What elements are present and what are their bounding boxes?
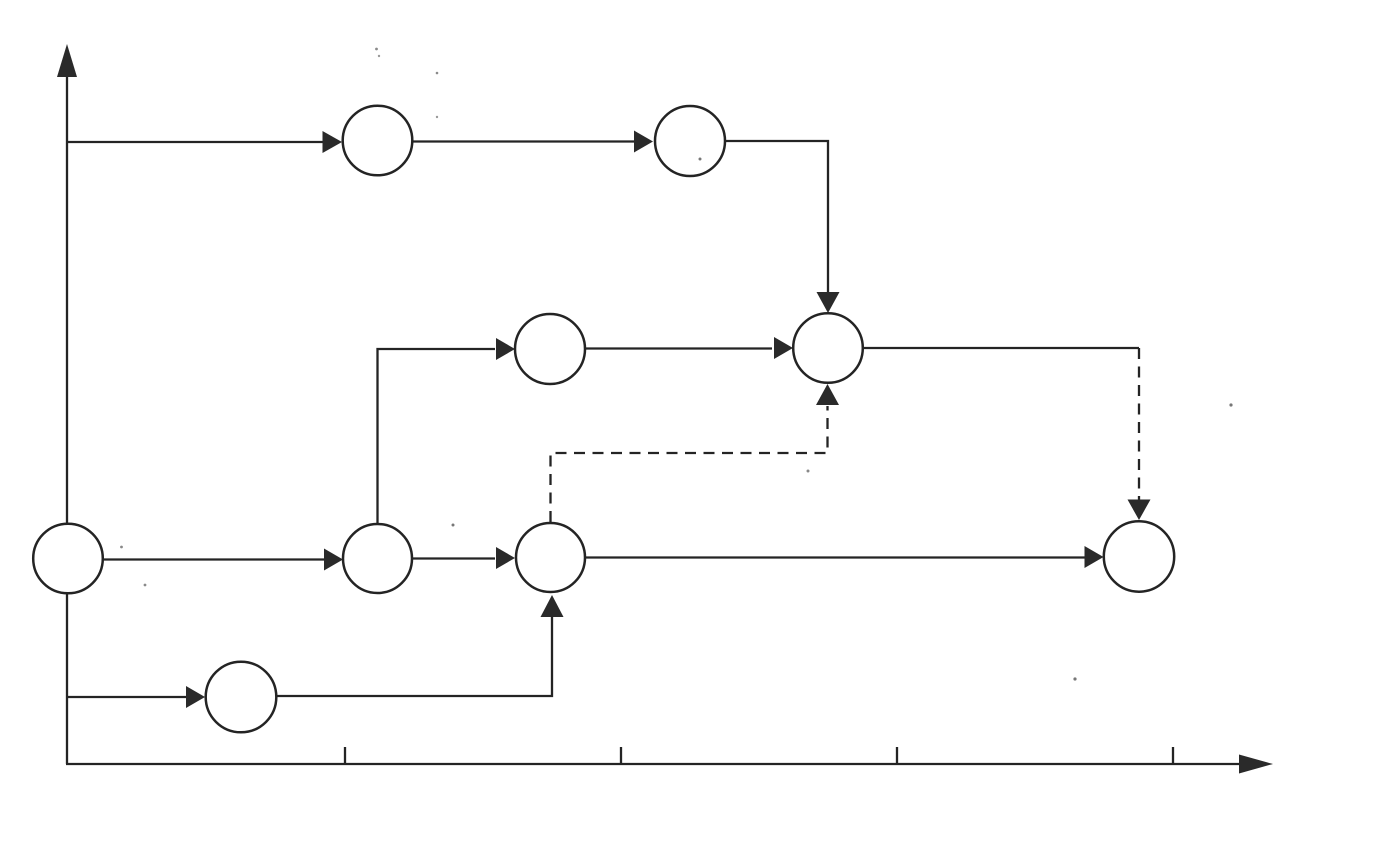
arrowhead into node N6 — [496, 547, 515, 569]
scan speck f — [120, 546, 123, 549]
arrowhead into node N6 bottom — [541, 595, 564, 617]
scan speck e — [452, 524, 455, 527]
x-axis tick t3 — [896, 747, 898, 764]
scan speck c — [436, 72, 439, 75]
arrowhead into node N8 — [1085, 546, 1104, 568]
wire: node N6 to node N8 — [586, 556, 1085, 558]
arrowhead into node N7 — [186, 686, 205, 708]
wire: axis to node N1 — [67, 141, 324, 143]
node N6 circle — [516, 523, 585, 592]
x-axis tick t1 — [344, 747, 346, 764]
node N7 circle — [206, 662, 277, 733]
wire: node N5 up then right to node N3 — [378, 349, 496, 525]
wire: start node N0 to node N5 — [101, 558, 326, 560]
arrowhead into node N4 — [774, 337, 793, 359]
wire: node N1 to node N2 — [411, 140, 636, 142]
scan speck h — [1229, 403, 1232, 406]
arrowhead into node N3 — [496, 338, 515, 360]
arrowhead into node N4 bottom — [816, 384, 839, 405]
arrowhead into node N5 — [324, 549, 343, 571]
arrowhead into node N4 top — [817, 292, 840, 313]
y-axis arrowhead — [57, 44, 77, 77]
y-axis line — [66, 74, 68, 764]
scan speck a — [375, 48, 378, 51]
node N4 circle — [793, 313, 863, 383]
dashed wire: node N6 up, right, up into node N4 bottom — [551, 406, 828, 522]
wire: node N4 right solid — [862, 347, 1139, 349]
arrowhead into node N2 — [634, 131, 653, 153]
x-axis tick t4 — [1172, 747, 1174, 764]
scan speck c2 — [436, 116, 438, 118]
scan speck j — [1073, 677, 1076, 680]
x-axis tick t2 — [620, 747, 622, 764]
wire: node N2 right then down to node N4 — [725, 141, 828, 292]
wire: node N3 to node N4 — [585, 347, 772, 349]
dashed wire: down to node N8 — [1138, 348, 1140, 500]
node N8 end circle — [1104, 521, 1174, 591]
node N5 circle — [343, 524, 412, 593]
scan speck i — [807, 470, 810, 473]
node N2 circle — [655, 106, 725, 176]
scan speck g — [144, 584, 147, 587]
node N0 start circle — [33, 524, 103, 594]
wire: node N5 to node N6 — [411, 557, 495, 559]
arrowhead into node N8 top — [1128, 500, 1151, 521]
scan speck b — [378, 55, 380, 57]
node N1 circle — [343, 106, 413, 176]
arrowhead into node N1 — [323, 131, 343, 153]
node N3 circle — [515, 314, 585, 384]
wire: axis to node N7 — [67, 696, 188, 698]
x-axis arrowhead — [1239, 755, 1273, 774]
scan speck d — [699, 158, 702, 161]
wire: node N7 right then up into node N6 bottom — [275, 616, 552, 696]
x-axis line — [66, 763, 1242, 765]
